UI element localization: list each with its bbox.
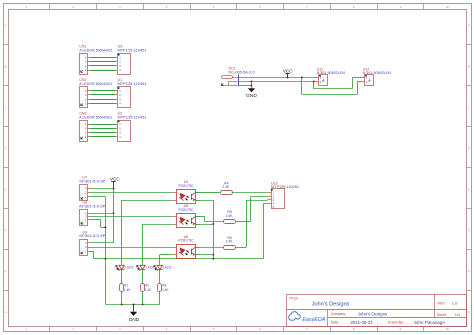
label U7 bbox=[79, 176, 106, 184]
title value bbox=[312, 301, 350, 307]
svg-text:D: D bbox=[5, 146, 7, 150]
junction 251.5,85.5 bbox=[251, 85, 253, 87]
label R6 bbox=[226, 236, 234, 244]
svg-text:H: H bbox=[468, 310, 470, 314]
wire U8.1 right bbox=[90, 219, 101, 221]
wire gnd rail x105.4 bbox=[105, 197, 107, 305]
label U8 bbox=[79, 201, 106, 209]
label CN1 bbox=[79, 45, 112, 53]
svg-text:KF301-5.0-3P: KF301-5.0-3P bbox=[79, 180, 106, 184]
wire gnd line up x263.3 bbox=[263, 204, 265, 259]
wire LED2 column top bbox=[142, 224, 144, 265]
svg-text:TITLE:: TITLE: bbox=[289, 296, 299, 300]
svg-text:LED3: LED3 bbox=[163, 266, 171, 270]
connector U1 bbox=[118, 87, 131, 108]
junction rail-gndline bbox=[104, 258, 106, 260]
resistor R1 bbox=[120, 284, 124, 292]
svg-text:REV:: REV: bbox=[438, 301, 446, 305]
svg-text:E: E bbox=[5, 187, 7, 191]
junction U8.1-rail bbox=[104, 226, 106, 228]
label R3 bbox=[162, 284, 169, 292]
junction 251.5,81.5 bbox=[251, 81, 253, 83]
wire U7.1 right bbox=[90, 196, 105, 198]
label U1 bbox=[118, 78, 147, 86]
resistor R6 bbox=[224, 246, 236, 250]
wire U9.1 down bbox=[93, 251, 95, 259]
svg-text:1.4K: 1.4K bbox=[162, 288, 169, 292]
svg-text:2.4K: 2.4K bbox=[226, 240, 234, 244]
wire U3 emitter right bbox=[196, 200, 214, 202]
wire x352.3 up bbox=[352, 78, 354, 89]
svg-text:1.0: 1.0 bbox=[452, 301, 458, 306]
svg-text:1.4K: 1.4K bbox=[124, 288, 131, 292]
sheet row bbox=[437, 312, 461, 317]
svg-text:VCC: VCC bbox=[283, 68, 293, 73]
wire y94.3 to U12 bbox=[302, 94, 358, 96]
svg-text:John's Designs: John's Designs bbox=[312, 301, 350, 307]
connector CN1 bbox=[80, 54, 88, 75]
svg-text:A LEDOR 50604G01: A LEDOR 50604G01 bbox=[79, 49, 112, 53]
svg-text:DC-005-5A-2.0: DC-005-5A-2.0 bbox=[229, 70, 255, 74]
wire R2 top bbox=[142, 270, 144, 284]
connector CN2 bbox=[80, 87, 88, 108]
svg-text:LED1: LED1 bbox=[125, 266, 133, 270]
wire R5 right bbox=[235, 221, 250, 223]
label U4 bbox=[118, 45, 147, 53]
junction VCC-U8.3 bbox=[113, 212, 115, 214]
title block frame bbox=[287, 295, 467, 327]
svg-text:John's Designs: John's Designs bbox=[358, 311, 388, 316]
svg-text:1/1: 1/1 bbox=[455, 312, 461, 317]
connector CN3 bbox=[80, 121, 88, 142]
svg-text:A LEDOR 50604G01: A LEDOR 50604G01 bbox=[79, 82, 112, 86]
EasyEDA logo bbox=[289, 312, 326, 324]
svg-text:E: E bbox=[468, 187, 470, 191]
svg-text:KF301-5.0-3P: KF301-5.0-3P bbox=[79, 234, 106, 238]
svg-text:B: B bbox=[468, 64, 470, 68]
svg-text:Drawn By:: Drawn By: bbox=[388, 321, 404, 325]
label LED2 bbox=[146, 266, 154, 270]
connector U4 bbox=[118, 54, 131, 75]
wire U5 emitter right bbox=[196, 224, 214, 226]
svg-text:A: A bbox=[5, 24, 7, 28]
junction 301.9,77.5 bbox=[301, 77, 303, 79]
wire y88.9 bbox=[314, 88, 353, 90]
svg-text:A LEDOR 50604G01: A LEDOR 50604G01 bbox=[79, 115, 112, 119]
label U9 bbox=[79, 230, 106, 238]
wire U8.3-VCC bbox=[90, 213, 114, 215]
wire U9.2-U6 anode bbox=[90, 247, 172, 249]
label LED1 bbox=[125, 266, 133, 270]
connector U9 bbox=[80, 240, 91, 256]
wire GND drop x251.5 bbox=[251, 82, 253, 89]
optocoupler U5 bbox=[172, 214, 201, 228]
label U10 bbox=[271, 181, 299, 189]
label U5 bbox=[178, 204, 194, 212]
svg-text:John Pitcavage: John Pitcavage bbox=[414, 320, 446, 325]
label U11 bbox=[317, 67, 345, 75]
wire R2 bottom bbox=[142, 292, 144, 305]
ground GND (bottom) bbox=[129, 304, 140, 323]
connector U7 bbox=[80, 185, 91, 201]
wire U6 collector-R6 bbox=[196, 247, 224, 249]
wire U6 cathode left bbox=[160, 254, 172, 256]
wire LED3 column top bbox=[159, 255, 161, 265]
svg-text:Company:: Company: bbox=[331, 312, 347, 316]
wire LED1 column top bbox=[121, 200, 123, 265]
wire U9.3-VCC bbox=[90, 242, 114, 244]
svg-text:KF301-5.0-3P: KF301-5.0-3P bbox=[79, 204, 106, 208]
wire U8.2-U5 anode bbox=[90, 216, 172, 218]
svg-text:LED2: LED2 bbox=[146, 266, 154, 270]
wire into U10 pin4 bbox=[263, 203, 267, 205]
LED LED3 bbox=[154, 265, 163, 271]
svg-text:MTP125-110451: MTP125-110451 bbox=[118, 49, 147, 53]
wire U5 coll down bbox=[204, 216, 206, 221]
svg-text:GND: GND bbox=[129, 317, 140, 323]
label R1 bbox=[124, 284, 131, 292]
rev label bbox=[438, 301, 459, 306]
wire U8.1 join bbox=[101, 227, 106, 229]
wire DC1 pin2 to U11 pin2 bbox=[238, 81, 315, 83]
svg-text:G: G bbox=[468, 269, 470, 273]
svg-text:VCC: VCC bbox=[110, 176, 120, 181]
wires CN2-U1 bbox=[88, 91, 118, 104]
wire gnd line y258.8 bbox=[105, 258, 263, 260]
label U3 bbox=[178, 180, 194, 188]
junction bus R2 bbox=[142, 303, 144, 305]
label R5 bbox=[226, 210, 234, 218]
module U12 bbox=[361, 75, 374, 86]
junction VCC stem bbox=[287, 77, 289, 79]
wire R3 bottom bbox=[159, 292, 161, 305]
svg-text:1.4K: 1.4K bbox=[145, 288, 152, 292]
LED LED2 bbox=[137, 265, 146, 271]
junction U11 pin2 branch bbox=[313, 81, 315, 83]
wire DC1 tip to U11 pin1 bbox=[238, 77, 315, 79]
company row bbox=[331, 311, 388, 316]
svg-text:2021-09-23: 2021-09-23 bbox=[351, 320, 374, 325]
junction bus R1 bbox=[121, 303, 123, 305]
wire gnd bus y304.4 bbox=[105, 304, 159, 306]
svg-text:PC817SC: PC817SC bbox=[178, 184, 194, 188]
label R2 bbox=[145, 284, 152, 292]
svg-text:MTP125-110451: MTP125-110451 bbox=[271, 185, 299, 189]
svg-text:Sheet:: Sheet: bbox=[437, 313, 447, 317]
wire U6 emitter right bbox=[196, 254, 214, 256]
svg-text:PC817SC: PC817SC bbox=[178, 208, 194, 212]
svg-text:2.4K: 2.4K bbox=[226, 214, 234, 218]
wire to R5 bbox=[205, 221, 224, 223]
svg-text:PC817SC: PC817SC bbox=[178, 239, 194, 243]
wire into U10 pin2 bbox=[250, 196, 267, 198]
wires CN1-U4 bbox=[88, 58, 118, 71]
label LED3 bbox=[163, 266, 171, 270]
svg-text:C: C bbox=[5, 105, 7, 109]
wire U8.1 down bbox=[100, 220, 102, 227]
connector U2 bbox=[118, 121, 131, 142]
module U11 bbox=[315, 75, 328, 86]
wires CN3-U2 bbox=[88, 125, 118, 137]
label CN3 bbox=[79, 111, 112, 119]
junction VCC-U7.3 bbox=[113, 188, 115, 190]
wire x357.5 up bbox=[357, 82, 359, 95]
resistor R4 bbox=[221, 191, 233, 195]
wire R1 top bbox=[121, 270, 123, 284]
date row bbox=[331, 320, 446, 325]
label R4 bbox=[222, 181, 230, 189]
svg-text:Date:: Date: bbox=[331, 321, 339, 325]
svg-text:A 301 50502U04: A 301 50502U04 bbox=[317, 71, 345, 75]
wire x246.2 up bbox=[246, 200, 248, 247]
junction U6 emitter bbox=[212, 254, 214, 256]
junction bus gnd tap bbox=[133, 303, 135, 305]
label U6 bbox=[178, 235, 194, 243]
title label bbox=[289, 296, 299, 300]
svg-text:GND: GND bbox=[246, 93, 257, 99]
dc jack DC1 bbox=[221, 74, 238, 86]
optocoupler U6 bbox=[172, 245, 201, 259]
wire branch x301.9 down bbox=[301, 78, 303, 95]
wire U9.1 right bbox=[90, 251, 94, 253]
svg-text:H: H bbox=[5, 310, 7, 314]
junction emitters-gnd bbox=[212, 258, 214, 260]
wire U7.2-U3 anode bbox=[90, 192, 172, 194]
power flag VCC (bottom) bbox=[110, 176, 120, 188]
power flag VCC (top) bbox=[283, 68, 293, 77]
wire VCC rail x113.5 bbox=[113, 189, 115, 243]
wire U5 collector right bbox=[196, 216, 205, 218]
svg-text:EasyEDA: EasyEDA bbox=[302, 317, 325, 323]
label DC1 bbox=[229, 66, 255, 74]
wire x250.2 up bbox=[250, 197, 252, 222]
LED LED1 bbox=[116, 265, 125, 271]
connector U8 bbox=[80, 210, 91, 226]
wire R3 top bbox=[159, 270, 161, 284]
svg-text:C: C bbox=[468, 105, 470, 109]
wire R1 bottom bbox=[121, 292, 123, 305]
resistor R3 bbox=[158, 284, 162, 292]
wire into U12 pin2 bbox=[358, 81, 362, 83]
resistor R2 bbox=[141, 284, 145, 292]
wire emitter rail x213.3 bbox=[213, 200, 215, 259]
wire R6 right bbox=[235, 247, 246, 249]
wire DC1 pin3 bbox=[238, 85, 251, 87]
svg-text:MTP125-110451: MTP125-110451 bbox=[118, 115, 147, 119]
wire into U10 pin3 bbox=[246, 200, 267, 202]
ground GND (dc jack) bbox=[246, 88, 257, 99]
svg-text:G: G bbox=[4, 269, 6, 273]
label U12 bbox=[363, 67, 391, 75]
wire U3 cathode left bbox=[122, 200, 172, 202]
wire x313.7 down bbox=[313, 82, 315, 89]
wire U5 cathode left bbox=[143, 224, 172, 226]
wire U3 collector-R4 bbox=[196, 191, 220, 193]
wire U9.1 join bbox=[94, 258, 106, 260]
junction U5 emitter bbox=[212, 223, 214, 225]
svg-text:2.4K: 2.4K bbox=[222, 185, 230, 189]
wire into U12 pin1 bbox=[352, 77, 361, 79]
connector U10 bbox=[267, 189, 284, 210]
optocoupler U3 bbox=[172, 190, 201, 204]
label CN2 bbox=[79, 78, 112, 86]
wire U7.3-VCC bbox=[90, 188, 114, 190]
svg-text:B: B bbox=[5, 64, 7, 68]
svg-text:MTP125-110451: MTP125-110451 bbox=[118, 82, 147, 86]
resistor R5 bbox=[224, 220, 236, 224]
label U2 bbox=[118, 111, 147, 119]
svg-text:A: A bbox=[468, 24, 470, 28]
svg-text:D: D bbox=[468, 146, 470, 150]
svg-text:A 301 50502U04: A 301 50502U04 bbox=[363, 71, 391, 75]
wire R4-U10 pin1 bbox=[232, 192, 268, 194]
